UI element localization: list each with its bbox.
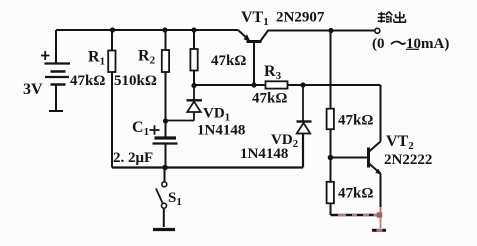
wire mid y85 — [194, 84, 381, 86]
wire top bus — [56, 30, 238, 63]
svg-text:R2: R2 — [138, 48, 156, 67]
svg-text:47kΩ: 47kΩ — [211, 53, 246, 69]
svg-text:47kΩ: 47kΩ — [252, 91, 287, 107]
resistor R3 47k — [252, 63, 288, 107]
svg-text:47kΩ: 47kΩ — [70, 73, 105, 89]
wire bottom right (black/pink dashes) — [331, 214, 378, 216]
node B (top of R2) — [162, 27, 167, 32]
node C (top of 47k) — [191, 27, 196, 32]
svg-text:R1: R1 — [88, 49, 105, 68]
node A (top of R1) — [110, 27, 115, 32]
label 输出 (drawn glyphs) — [378, 12, 393, 23]
transistor VT2 2N2222 — [369, 85, 433, 213]
svg-text:2N2907: 2N2907 — [276, 10, 325, 26]
node J (VT2 base junction) — [328, 155, 334, 161]
svg-text:(0: (0 — [372, 36, 385, 52]
svg-text:2. 2μF: 2. 2μF — [113, 150, 153, 166]
svg-text:1N4148: 1N4148 — [197, 123, 245, 139]
node H (R2/C1/VD1 junction) — [163, 118, 168, 123]
switch S1 — [156, 168, 182, 228]
svg-text:R3: R3 — [264, 63, 282, 82]
diode VD1 1N4148 — [166, 86, 246, 139]
svg-text:47kΩ: 47kΩ — [338, 113, 373, 129]
resistor 47k (top middle) — [190, 30, 246, 85]
node K (pink junction square) — [377, 212, 382, 217]
diode VD2 1N4148 — [240, 85, 312, 162]
svg-text:510kΩ: 510kΩ — [114, 73, 157, 89]
capacitor C1 2.2uF — [113, 119, 178, 168]
battery 3V — [23, 51, 70, 111]
svg-text:VT1: VT1 — [241, 9, 269, 28]
svg-text:VD1: VD1 — [203, 106, 230, 124]
wire right drop — [330, 31, 332, 109]
wire VT2 base — [331, 157, 368, 159]
svg-text:1N4148: 1N4148 — [240, 146, 288, 162]
svg-text:47kΩ: 47kΩ — [338, 186, 373, 202]
resistor 47k lower right — [327, 158, 374, 216]
output terminal — [372, 28, 449, 52]
node G (VD2 top junction) — [300, 82, 305, 87]
transistor VT1 2N2907 — [238, 9, 325, 42]
svg-text:C1: C1 — [132, 119, 149, 138]
svg-text:3V: 3V — [23, 81, 43, 98]
resistor R1 47k — [70, 30, 116, 168]
svg-text:S1: S1 — [168, 190, 182, 208]
node E (47k bottom / VD1) — [191, 83, 196, 88]
svg-text:2N2222: 2N2222 — [384, 152, 432, 168]
ground (S1) — [153, 228, 175, 231]
svg-text:VT2: VT2 — [386, 133, 414, 152]
node I (C1/S1 junction) — [162, 165, 168, 171]
wire top right to output — [268, 30, 375, 32]
ground (VT2, pink) — [372, 218, 386, 231]
node D (output branch) — [328, 28, 333, 33]
resistor 47k upper right — [327, 109, 374, 158]
node F (VT1 base junction) — [251, 82, 256, 87]
wire bottom bus — [112, 134, 303, 168]
wire VT1 base — [253, 43, 255, 85]
resistor R2 510k — [114, 30, 169, 121]
